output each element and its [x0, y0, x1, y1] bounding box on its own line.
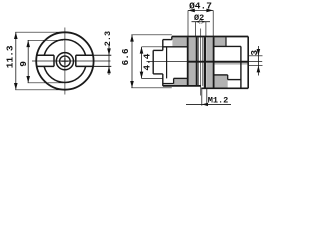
seam hatch strip right	[214, 63, 249, 65]
dimension 9	[28, 40, 63, 83]
bore left edge	[196, 37, 198, 86]
right shelf	[228, 79, 241, 81]
step top-left	[171, 37, 173, 40]
vertical centerline	[64, 28, 66, 95]
nose top	[153, 49, 163, 51]
left void bottom shallow	[174, 77, 188, 79]
outer circle D11.3	[36, 32, 93, 89]
core hatch right	[206, 38, 213, 89]
right void top	[214, 45, 241, 47]
bore circle D2	[60, 56, 71, 67]
dimension D4.7	[188, 10, 213, 36]
section top outer edge	[172, 36, 248, 38]
dimension 3 (right)	[249, 46, 263, 76]
svg-text:M1.2: M1.2	[208, 95, 229, 105]
bottom flange hatch right	[214, 75, 228, 88]
thread line right	[202, 37, 204, 86]
left arm top edge	[163, 39, 172, 41]
svg-text:6.6: 6.6	[120, 48, 131, 65]
top flange hatch left	[172, 37, 187, 46]
svg-text:3: 3	[249, 50, 260, 56]
left void deep bottom	[163, 83, 174, 85]
dimension 11.3	[15, 32, 63, 90]
left edge lower	[162, 74, 164, 86]
center cross	[61, 58, 68, 65]
right void step	[227, 75, 229, 80]
svg-text:Ø2: Ø2	[194, 13, 204, 23]
seam line	[188, 61, 249, 63]
core hatch left	[188, 38, 195, 86]
bottom flange hatch left	[174, 79, 188, 86]
top flange hatch right	[214, 37, 226, 46]
right bottom edge	[201, 87, 248, 89]
inner circle D9 bottom arc	[44, 66, 86, 82]
dimension M1.2	[186, 103, 231, 105]
inner circle D9 top arc	[44, 40, 85, 56]
svg-text:11.3: 11.3	[5, 45, 16, 68]
svg-text:9: 9	[18, 61, 29, 67]
svg-text:4.4: 4.4	[141, 53, 152, 70]
core right edge	[213, 37, 215, 88]
slot bracket verticals	[54, 55, 76, 66]
section vertical centerline	[200, 29, 202, 96]
left bottom edge	[163, 85, 201, 87]
left edge upper	[162, 40, 164, 51]
hub circle	[56, 53, 73, 70]
hatch gray fills	[172, 37, 248, 88]
svg-text:2.3: 2.3	[103, 31, 113, 46]
M1.2 extension right	[206, 88, 208, 105]
thread line left	[198, 37, 200, 86]
nose left edge	[152, 50, 154, 74]
left void top	[163, 46, 188, 48]
slot bottom line	[37, 65, 93, 67]
left void step	[173, 78, 175, 83]
bore right edge	[204, 37, 206, 88]
right outer edge	[247, 37, 249, 89]
dimension 6.6	[131, 35, 172, 88]
nose bottom	[153, 73, 163, 75]
left void left wall	[166, 47, 168, 79]
dimension 2.3	[94, 46, 111, 76]
right void bottom	[214, 74, 228, 76]
slot top line	[37, 54, 93, 56]
right inner wall	[240, 46, 242, 87]
core left edge	[187, 37, 189, 86]
section horizontal centerline	[147, 61, 263, 63]
dimension 4.4	[141, 47, 162, 79]
dimension D2	[192, 22, 211, 37]
horizontal centerline	[32, 60, 111, 62]
M1.2 extension left	[201, 88, 203, 105]
top-right separator	[225, 37, 227, 46]
svg-text:Ø4.7: Ø4.7	[189, 0, 212, 11]
